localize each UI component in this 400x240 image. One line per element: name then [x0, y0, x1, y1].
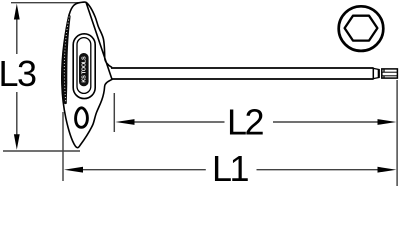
svg-text:L1: L1 — [212, 148, 249, 189]
svg-text:L2: L2 — [227, 102, 264, 143]
svg-text:L3: L3 — [0, 53, 36, 94]
svg-text:KS TOOLS: KS TOOLS — [82, 56, 88, 83]
